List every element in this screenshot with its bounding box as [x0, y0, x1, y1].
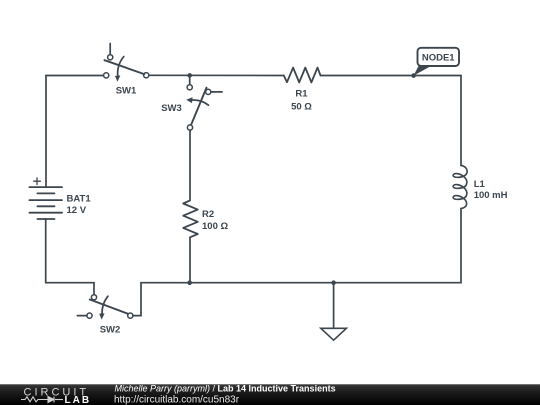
ground — [321, 283, 347, 341]
svg-text:SW2: SW2 — [100, 324, 121, 335]
svg-text:Michelle Parry (parryml) / Lab: Michelle Parry (parryml) / Lab 14 Induct… — [115, 384, 336, 394]
resistor R1 — [284, 68, 321, 83]
svg-text:100 mH: 100 mH — [474, 190, 508, 201]
battery BAT1 — [29, 178, 62, 219]
svg-text:SW3: SW3 — [161, 103, 182, 114]
wire bottom horizontal — [141, 282, 461, 284]
wire SW2 right riser — [133, 283, 141, 316]
junction dot at ground — [331, 280, 336, 285]
svg-text:50 Ω: 50 Ω — [291, 102, 312, 113]
wire R1 to right corner — [321, 75, 462, 77]
wire SW1 to R1 — [149, 74, 284, 76]
svg-text:12 V: 12 V — [67, 205, 87, 216]
svg-text:SW1: SW1 — [116, 86, 137, 97]
svg-text:R1: R1 — [295, 89, 308, 100]
svg-text:100 Ω: 100 Ω — [202, 221, 228, 232]
wire drop to SW2 — [93, 283, 95, 295]
switch SW2 — [77, 295, 133, 320]
wire top-left horizontal — [46, 75, 104, 77]
svg-text:LAB: LAB — [65, 395, 92, 405]
logo CircuitLab — [21, 386, 91, 405]
junction dot at R2 bottom — [187, 280, 192, 285]
wire left vertical (top) — [45, 76, 47, 188]
switch SW3 — [186, 75, 222, 130]
svg-text:http://circuitlab.com/cu5n83r: http://circuitlab.com/cu5n83r — [114, 394, 240, 405]
wire right vertical (bottom) — [460, 209, 462, 283]
wire right vertical (top) — [460, 76, 462, 166]
node NODE1 flag — [414, 48, 459, 76]
switch SW1 — [104, 44, 149, 82]
wire SW3 to R2 — [189, 130, 191, 200]
inductor L1 — [453, 165, 467, 208]
junction dot at NODE1 — [411, 73, 416, 78]
svg-text:L1: L1 — [474, 179, 486, 190]
wire battery to bottom-left — [46, 219, 94, 283]
svg-text:R2: R2 — [202, 209, 214, 220]
junction dot at SW3 top — [187, 73, 192, 78]
resistor R2 — [183, 200, 198, 237]
svg-text:NODE1: NODE1 — [422, 52, 455, 63]
svg-text:BAT1: BAT1 — [67, 194, 92, 205]
wire R2 to bottom — [189, 237, 191, 282]
